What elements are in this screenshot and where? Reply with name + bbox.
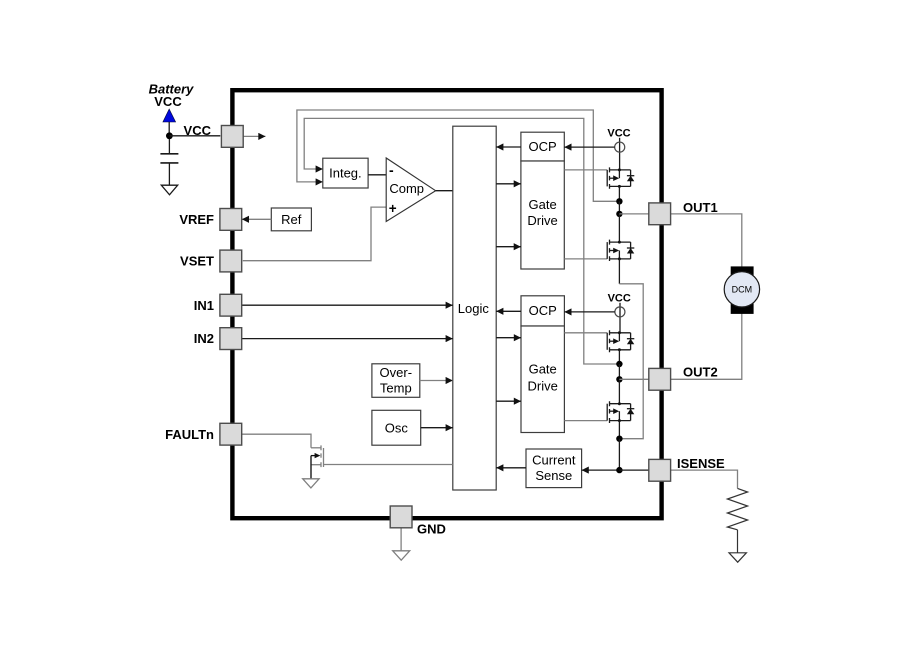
- ground (battery): [161, 185, 177, 195]
- svg-text:Current: Current: [532, 452, 576, 467]
- wire ISENSE node to pin: [619, 469, 650, 471]
- wire node to VCC pin: [169, 135, 220, 137]
- wire OUT1 node to M2 drain: [618, 214, 620, 242]
- wire gate drive to M4 gate: [564, 420, 607, 422]
- pin VREF: [220, 209, 242, 231]
- motor terminal top: [731, 266, 754, 276]
- wire VCC2 to M3 drain: [619, 303, 621, 333]
- node ISENSE: [616, 467, 622, 473]
- svg-text:VSET: VSET: [180, 254, 214, 269]
- motor DCM: [724, 272, 759, 307]
- node low-side join: [616, 436, 622, 442]
- block Gate Drive 2: [521, 326, 564, 433]
- wire VSET to comparator: [243, 207, 386, 261]
- wire ISENSE pin to resistor: [671, 470, 738, 488]
- pin ISENSE: [649, 459, 671, 481]
- pin OUT1: [649, 203, 671, 225]
- wire Logic to Gate Drive 2 (upper): [496, 337, 521, 339]
- wire node to node: [618, 201, 620, 214]
- svg-text:Logic: Logic: [458, 301, 490, 316]
- svg-text:Over-: Over-: [380, 365, 413, 380]
- svg-text:VCC: VCC: [154, 94, 182, 109]
- wire M3 source to OUT2 node: [618, 350, 620, 364]
- block Ref: [271, 208, 311, 231]
- svg-text:VREF: VREF: [179, 212, 214, 227]
- wire gate drive to M2 gate: [564, 258, 607, 260]
- transistor M1: [607, 167, 634, 188]
- wire M1 source to OUT1 node: [618, 186, 620, 201]
- node OUT2: [616, 376, 622, 382]
- svg-text:ISENSE: ISENSE: [677, 456, 725, 471]
- wire Current Sense to Logic: [496, 467, 526, 469]
- node junction (feedback 1): [616, 198, 622, 204]
- pin FAULTn: [220, 423, 242, 445]
- wire feedback OUT2 to Integ: [304, 118, 620, 364]
- wire ISENSE node to Current Sense: [582, 469, 620, 471]
- wire M4 source to sense node: [618, 421, 620, 439]
- wire Logic to Gate Drive 2 (lower): [496, 400, 521, 402]
- svg-text:Comp: Comp: [389, 181, 424, 196]
- svg-text:OCP: OCP: [529, 139, 557, 154]
- wire OUT2 node to M4 drain: [618, 379, 620, 403]
- wire IN1 to Logic: [242, 304, 453, 306]
- wire Integ to comparator: [368, 174, 386, 176]
- wire VCC2 to OCP2: [564, 311, 614, 313]
- wire M2 source to low-side rail: [619, 284, 643, 439]
- node VCC supply 1: [615, 142, 625, 152]
- IC boundary: [232, 90, 661, 518]
- svg-text:DCM: DCM: [732, 285, 753, 295]
- pin IN1: [220, 294, 242, 316]
- resistor Rsense: [727, 488, 747, 529]
- svg-text:VCC: VCC: [608, 292, 631, 304]
- wire feedback OUT1 to Integ: [297, 110, 620, 201]
- wire GND pin to ground: [400, 528, 402, 551]
- wire capacitor to ground: [168, 163, 170, 185]
- wire battery to node: [168, 122, 170, 136]
- svg-text:Sense: Sense: [535, 468, 572, 483]
- wire OUT1 to motor: [619, 214, 741, 269]
- transistor M3: [607, 330, 634, 352]
- wire Logic to Gate Drive 1 (upper): [496, 183, 521, 185]
- svg-text:IN1: IN1: [194, 298, 214, 313]
- block Current Sense: [526, 449, 582, 488]
- capacitor C1 plate: [160, 153, 178, 155]
- svg-text:Gate: Gate: [529, 197, 557, 212]
- block Integ U2: [323, 158, 368, 188]
- wire to ISENSE node: [618, 439, 620, 470]
- svg-text:Drive: Drive: [528, 379, 558, 394]
- svg-text:Gate: Gate: [529, 362, 557, 377]
- pin VSET: [220, 250, 242, 272]
- wire Q5 source to ground: [310, 456, 312, 479]
- capacitor C1 plate: [160, 162, 178, 164]
- pin IN2: [220, 328, 242, 350]
- ground (Q5): [303, 479, 319, 488]
- svg-text:GND: GND: [417, 522, 446, 537]
- svg-text:OCP: OCP: [529, 303, 557, 318]
- wire FAULTn to Q5: [242, 434, 312, 448]
- pin VCC: [221, 126, 243, 148]
- wire resistor to ground: [737, 530, 739, 553]
- svg-text:Temp: Temp: [380, 381, 412, 396]
- ground (sense resistor): [729, 553, 746, 562]
- block Logic: [453, 126, 496, 490]
- ground (GND pin): [393, 551, 410, 560]
- wire gate drive to M3 gate: [564, 332, 607, 334]
- wire VCC1 to M1 drain: [619, 138, 621, 170]
- wire Logic to Gate Drive 1 (lower): [496, 246, 521, 248]
- wire M2 source down: [618, 259, 620, 284]
- transistor Q5 (open-drain fault output): [311, 445, 453, 467]
- block Gate Drive 1: [521, 161, 564, 269]
- block Osc: [372, 410, 421, 445]
- op-amp Comp: [386, 158, 435, 222]
- wire IN2 to Logic: [242, 338, 453, 340]
- battery supply arrow (blue): [163, 109, 176, 122]
- block OCP 2: [521, 296, 564, 326]
- svg-text:Integ.: Integ.: [329, 166, 362, 181]
- wire Ref to VREF pin: [242, 218, 271, 220]
- svg-text:-: -: [389, 162, 394, 178]
- block OCP 1: [521, 132, 564, 161]
- svg-text:+: +: [389, 201, 397, 216]
- pin GND: [390, 506, 412, 528]
- wire node to node: [618, 364, 620, 379]
- transistor M4: [607, 401, 634, 423]
- svg-text:Drive: Drive: [527, 213, 557, 228]
- wire gate drive to M1 gate: [564, 169, 607, 171]
- wire comparator to Logic: [436, 190, 453, 192]
- wire node to capacitor: [168, 139, 170, 154]
- svg-text:IN2: IN2: [194, 331, 214, 346]
- svg-text:Osc: Osc: [385, 420, 409, 435]
- svg-text:VCC: VCC: [184, 123, 212, 138]
- transistor M2: [607, 240, 634, 261]
- wire OCP1 to Logic: [496, 146, 521, 148]
- svg-text:Ref: Ref: [281, 212, 302, 227]
- svg-text:OUT2: OUT2: [683, 364, 718, 379]
- pin OUT2: [649, 368, 671, 390]
- motor terminal bottom: [731, 303, 754, 314]
- wire Over-Temp to Logic: [420, 380, 453, 382]
- node OUT1: [616, 211, 622, 217]
- svg-text:OUT1: OUT1: [683, 200, 718, 215]
- wire VCC pin internal arrow: [243, 135, 265, 137]
- svg-text:VCC: VCC: [607, 127, 630, 139]
- node junction (feedback 2): [616, 361, 622, 367]
- wire motor to OUT2: [619, 311, 741, 379]
- node VCC supply 2: [615, 307, 625, 317]
- block Over-Temp: [372, 364, 420, 398]
- wire Osc to Logic: [421, 427, 453, 429]
- svg-text:FAULTn: FAULTn: [165, 427, 214, 442]
- node battery junction: [166, 132, 173, 139]
- wire OCP2 to Logic: [496, 310, 521, 312]
- wire VCC1 to OCP1: [564, 146, 614, 148]
